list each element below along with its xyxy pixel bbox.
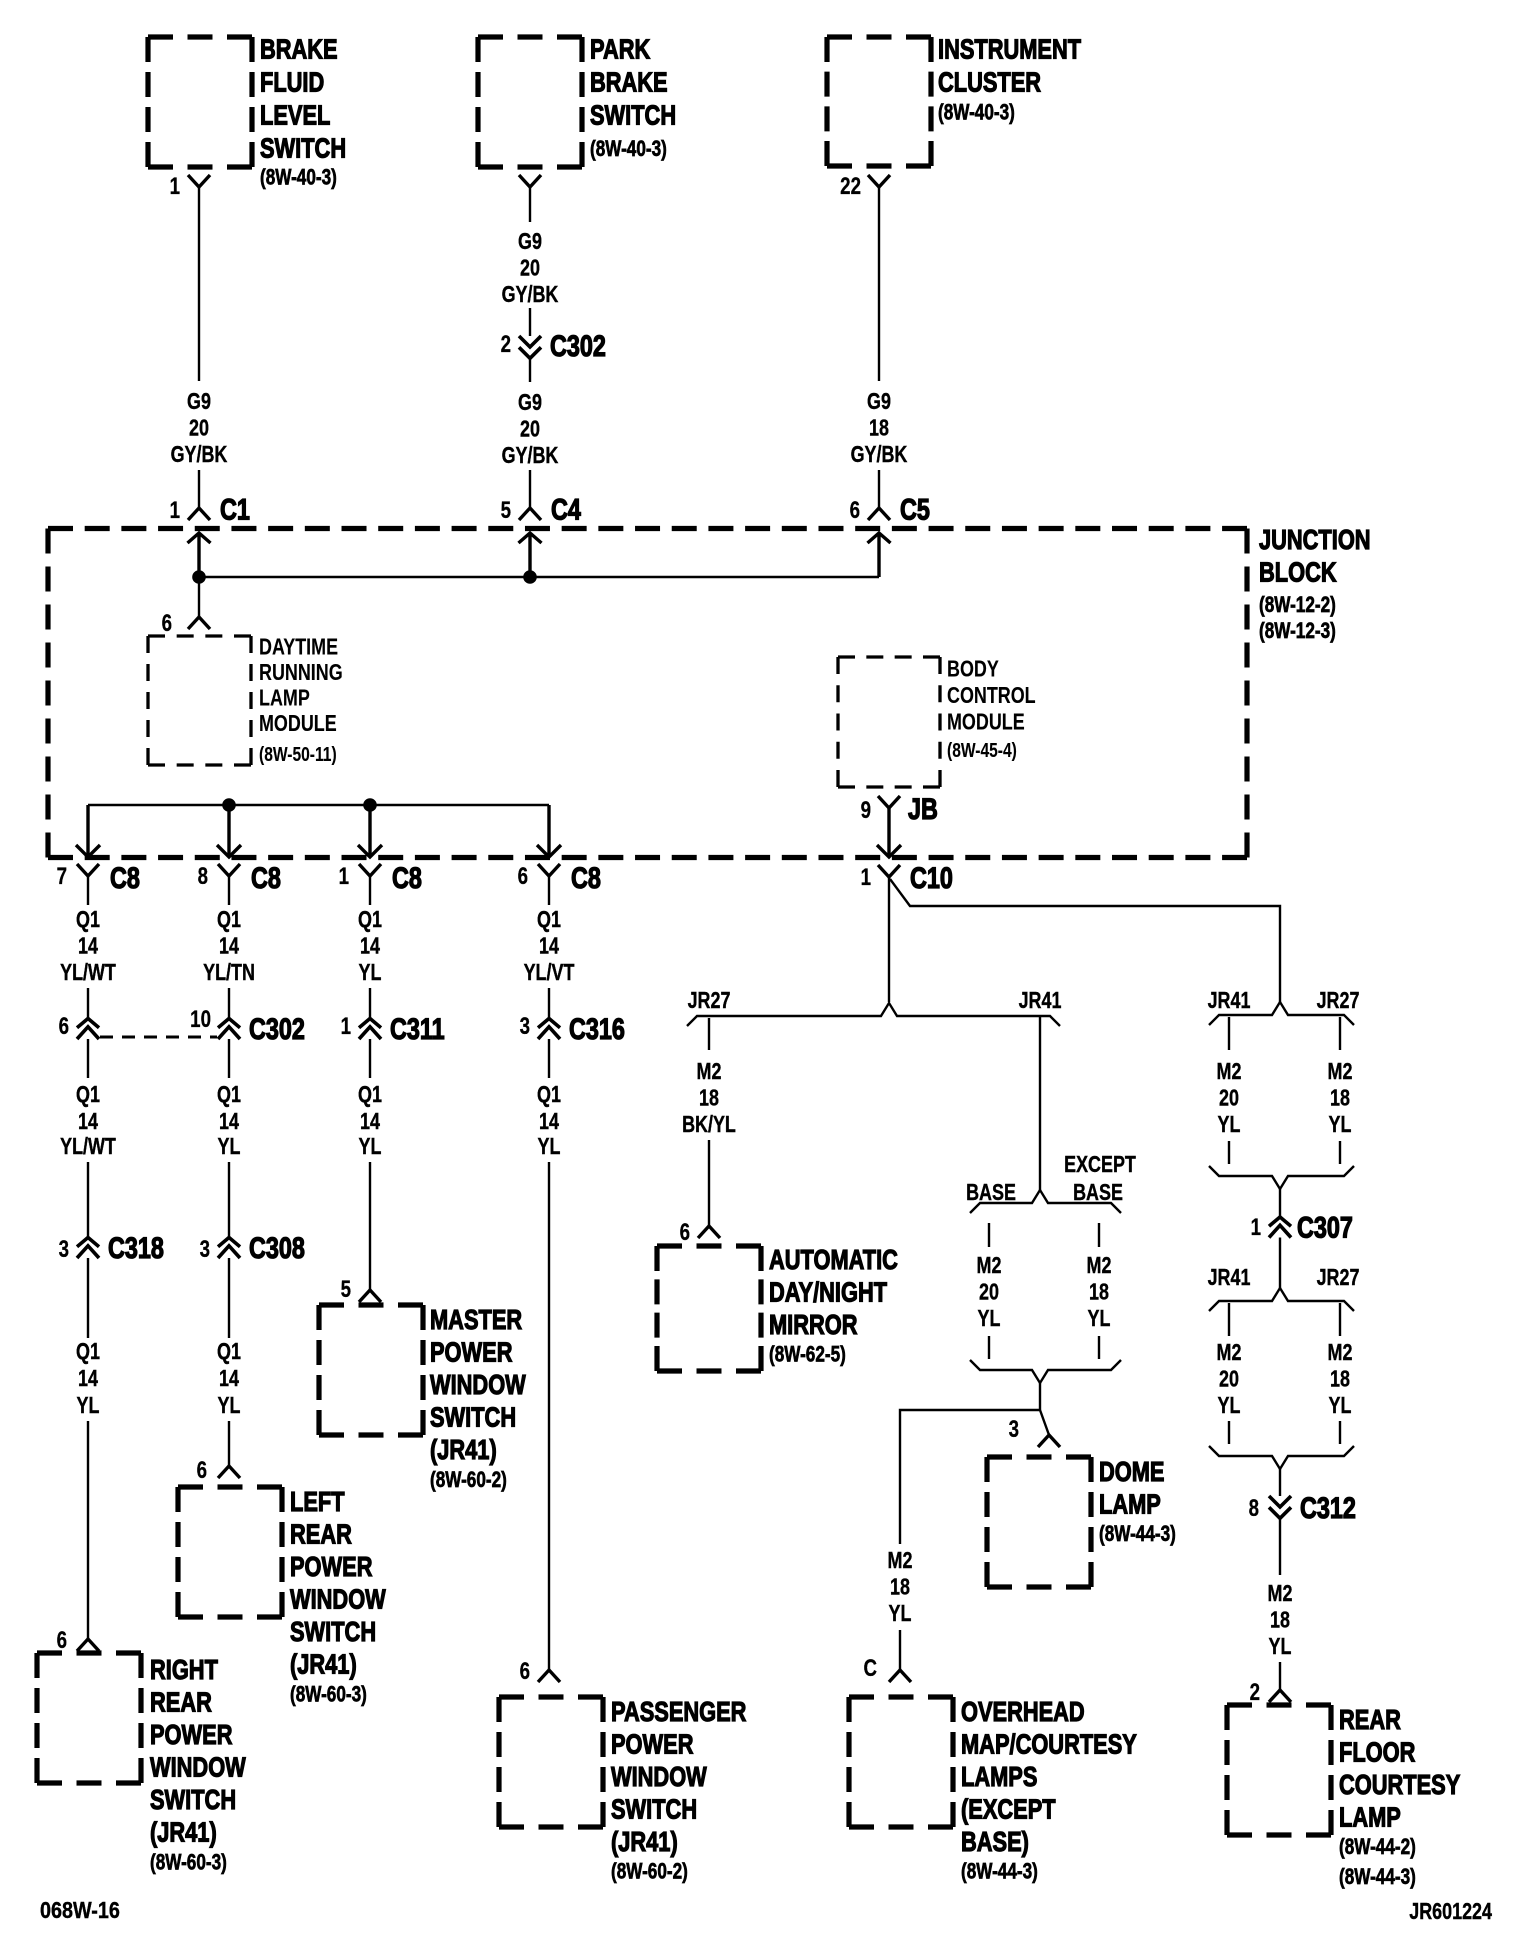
svg-text:18: 18 bbox=[869, 415, 889, 441]
svg-text:(8W-62-5): (8W-62-5) bbox=[769, 1343, 846, 1368]
svg-text:18: 18 bbox=[1270, 1607, 1290, 1633]
connector C8 fork at x=229 bbox=[218, 864, 240, 876]
svg-text:YL/TN: YL/TN bbox=[203, 960, 255, 986]
svg-text:GY/BK: GY/BK bbox=[171, 442, 228, 468]
svg-text:3: 3 bbox=[200, 1236, 210, 1263]
svg-text:C8: C8 bbox=[392, 861, 422, 894]
svg-text:(8W-60-3): (8W-60-3) bbox=[290, 1683, 367, 1708]
wire label M2 18 YL (JR27 lower) bbox=[1328, 1340, 1353, 1419]
wire Q1 14 YL below C318 bbox=[76, 1258, 100, 1419]
component daytime running lamp module bbox=[148, 634, 343, 765]
svg-text:DOME: DOME bbox=[1099, 1456, 1164, 1487]
wire stub except base bbox=[1098, 1223, 1100, 1247]
svg-text:14: 14 bbox=[78, 1366, 98, 1392]
arrow from body control module to C10 bbox=[877, 808, 901, 857]
svg-text:C311: C311 bbox=[390, 1012, 445, 1045]
component automatic day/night mirror bbox=[657, 1244, 898, 1371]
svg-text:YL: YL bbox=[218, 1393, 241, 1419]
svg-text:C308: C308 bbox=[249, 1231, 305, 1264]
connector fork at rear floor courtesy lamp bbox=[1269, 1690, 1291, 1702]
in-line connector C302 (unlabeled half) bbox=[77, 1019, 99, 1040]
svg-text:C10: C10 bbox=[910, 861, 953, 894]
svg-text:Q1: Q1 bbox=[537, 1082, 561, 1108]
in-line connector C308 bbox=[228, 1162, 230, 1238]
svg-text:18: 18 bbox=[699, 1085, 719, 1111]
wire Q1 14 YL/WT below C8 pin 7 bbox=[60, 876, 116, 1018]
svg-text:10: 10 bbox=[190, 1006, 211, 1033]
wire jog to dome lamp bbox=[1040, 1410, 1049, 1435]
svg-text:YL: YL bbox=[359, 1134, 382, 1160]
svg-text:14: 14 bbox=[219, 933, 239, 959]
svg-text:POWER: POWER bbox=[290, 1551, 372, 1582]
svg-text:1: 1 bbox=[170, 173, 180, 200]
wire stub JR41 lower bbox=[1228, 1141, 1230, 1164]
svg-text:6: 6 bbox=[57, 1627, 67, 1654]
wire Q1 14 YL/VT below C8 pin 6 bbox=[524, 876, 575, 1018]
svg-text:22: 22 bbox=[840, 173, 861, 200]
svg-text:WINDOW: WINDOW bbox=[150, 1752, 246, 1783]
harness split JR41 / JR27 right tree lower bbox=[1209, 1288, 1354, 1311]
component park brake switch bbox=[478, 34, 676, 167]
svg-text:3: 3 bbox=[520, 1013, 530, 1040]
svg-text:C5: C5 bbox=[900, 493, 930, 526]
svg-text:FLOOR: FLOOR bbox=[1339, 1737, 1415, 1768]
wire stub except base lower bbox=[1098, 1336, 1100, 1359]
svg-text:20: 20 bbox=[520, 255, 540, 281]
in-line connector C318 bbox=[87, 1162, 89, 1238]
svg-text:WINDOW: WINDOW bbox=[430, 1369, 526, 1400]
wire stub JR27 upper bbox=[1339, 1017, 1341, 1050]
svg-text:Q1: Q1 bbox=[358, 1082, 382, 1108]
wire label M2 20 YL (JR41) bbox=[1217, 1059, 1242, 1138]
component left rear power window switch bbox=[178, 1486, 386, 1707]
svg-text:C1: C1 bbox=[220, 493, 250, 526]
in-line connector C311 bbox=[359, 1019, 381, 1040]
svg-text:MAP/COURTESY: MAP/COURTESY bbox=[961, 1729, 1137, 1760]
svg-text:DAY/NIGHT: DAY/NIGHT bbox=[769, 1277, 888, 1308]
svg-text:LAMP: LAMP bbox=[1339, 1802, 1401, 1833]
component right rear power window switch bbox=[37, 1653, 246, 1875]
arrow into junction block at C4 bbox=[519, 533, 542, 577]
svg-text:COURTESY: COURTESY bbox=[1339, 1769, 1460, 1800]
svg-text:(EXCEPT: (EXCEPT bbox=[961, 1794, 1056, 1825]
component body control module bbox=[838, 656, 1036, 787]
svg-text:9: 9 bbox=[861, 797, 871, 824]
component passenger power window switch bbox=[499, 1696, 746, 1884]
svg-text:BASE: BASE bbox=[966, 1180, 1016, 1206]
svg-text:(8W-60-3): (8W-60-3) bbox=[150, 1851, 227, 1876]
svg-text:WINDOW: WINDOW bbox=[611, 1761, 707, 1792]
svg-text:JR27: JR27 bbox=[1317, 1265, 1360, 1291]
wire from merge to dome lamp branch bbox=[1039, 1383, 1041, 1410]
svg-text:M2: M2 bbox=[1217, 1340, 1242, 1366]
svg-text:M2: M2 bbox=[1328, 1340, 1353, 1366]
wire from C308 to left rear power window switch bbox=[228, 1421, 230, 1466]
svg-text:14: 14 bbox=[219, 1109, 239, 1135]
wire Q1 14 YL/TN below C8 pin 8 bbox=[203, 876, 255, 1018]
svg-text:6: 6 bbox=[518, 863, 528, 890]
wire label M2 20 YL (base) bbox=[977, 1253, 1002, 1332]
svg-text:1: 1 bbox=[341, 1013, 351, 1040]
svg-text:C312: C312 bbox=[1300, 1491, 1356, 1524]
connector fork at left rear power window switch bbox=[218, 1466, 240, 1478]
svg-text:PARK: PARK bbox=[590, 34, 650, 65]
svg-text:LEFT: LEFT bbox=[290, 1486, 345, 1517]
svg-text:3: 3 bbox=[59, 1236, 69, 1263]
svg-text:YL: YL bbox=[77, 1393, 100, 1419]
wire from C318 to right rear power window switch bbox=[87, 1421, 89, 1639]
wire M2 18 BK/YL to automatic day/night mirror bbox=[682, 1018, 736, 1226]
svg-text:LAMP: LAMP bbox=[259, 685, 310, 711]
component overhead map/courtesy lamps bbox=[849, 1696, 1137, 1884]
wire stub base lower bbox=[988, 1336, 990, 1359]
connector C5 bbox=[868, 508, 890, 520]
svg-text:C: C bbox=[863, 1655, 877, 1682]
svg-text:M2: M2 bbox=[697, 1059, 722, 1085]
svg-text:JR41: JR41 bbox=[1208, 988, 1251, 1014]
connector C1 bbox=[188, 508, 210, 520]
svg-text:2: 2 bbox=[501, 331, 511, 358]
svg-text:MIRROR: MIRROR bbox=[769, 1309, 858, 1340]
svg-text:G9: G9 bbox=[187, 389, 211, 415]
svg-text:YL/WT: YL/WT bbox=[60, 960, 116, 986]
svg-text:YL: YL bbox=[538, 1134, 561, 1160]
svg-text:6: 6 bbox=[850, 497, 860, 524]
svg-text:14: 14 bbox=[78, 1109, 98, 1135]
svg-text:Q1: Q1 bbox=[537, 907, 561, 933]
svg-text:YL: YL bbox=[1269, 1634, 1292, 1660]
svg-text:YL: YL bbox=[1329, 1112, 1352, 1138]
svg-text:Q1: Q1 bbox=[217, 907, 241, 933]
svg-text:Q1: Q1 bbox=[217, 1082, 241, 1108]
svg-text:20: 20 bbox=[189, 415, 209, 441]
svg-text:C316: C316 bbox=[569, 1012, 625, 1045]
harness split BASE / EXCEPT BASE bbox=[970, 1190, 1121, 1213]
svg-text:Q1: Q1 bbox=[217, 1339, 241, 1365]
connector fork under park brake switch bbox=[519, 175, 541, 187]
svg-text:(8W-44-3): (8W-44-3) bbox=[1339, 1865, 1416, 1890]
svg-text:(8W-44-3): (8W-44-3) bbox=[1099, 1522, 1176, 1547]
svg-text:C8: C8 bbox=[251, 861, 281, 894]
svg-text:Q1: Q1 bbox=[76, 1339, 100, 1365]
component rear floor courtesy lamp bbox=[1227, 1704, 1460, 1889]
wire branch from C10 to right harness bbox=[890, 879, 1280, 1002]
svg-text:(8W-44-2): (8W-44-2) bbox=[1339, 1835, 1416, 1860]
svg-text:YL: YL bbox=[359, 960, 382, 986]
wire M2 18 YL to overhead map/courtesy lamps bbox=[888, 1548, 913, 1670]
svg-text:YL: YL bbox=[978, 1306, 1001, 1332]
connector C8 fork at x=88 bbox=[77, 864, 99, 876]
svg-text:POWER: POWER bbox=[611, 1729, 693, 1760]
svg-text:6: 6 bbox=[680, 1219, 690, 1246]
svg-text:(JR41): (JR41) bbox=[430, 1434, 497, 1465]
svg-text:CONTROL: CONTROL bbox=[947, 683, 1036, 709]
svg-text:G9: G9 bbox=[518, 229, 542, 255]
harness split JR27 / JR41 left tree bbox=[687, 1003, 1060, 1026]
svg-text:BASE: BASE bbox=[1073, 1180, 1123, 1206]
svg-text:Q1: Q1 bbox=[358, 907, 382, 933]
connector fork at dome lamp bbox=[1038, 1435, 1060, 1447]
svg-text:M2: M2 bbox=[1268, 1581, 1293, 1607]
svg-text:14: 14 bbox=[539, 933, 559, 959]
svg-text:G9: G9 bbox=[518, 390, 542, 416]
svg-text:SWITCH: SWITCH bbox=[611, 1794, 697, 1825]
wire stub base bbox=[988, 1223, 990, 1247]
svg-text:JUNCTION: JUNCTION bbox=[1259, 524, 1371, 555]
svg-text:RUNNING: RUNNING bbox=[259, 660, 343, 686]
svg-text:YL: YL bbox=[1218, 1112, 1241, 1138]
svg-text:JR41: JR41 bbox=[1208, 1265, 1251, 1291]
svg-text:6: 6 bbox=[520, 1658, 530, 1685]
svg-text:3: 3 bbox=[1009, 1416, 1019, 1443]
svg-text:BK/YL: BK/YL bbox=[682, 1112, 736, 1138]
svg-text:Q1: Q1 bbox=[76, 907, 100, 933]
svg-text:OVERHEAD: OVERHEAD bbox=[961, 1696, 1085, 1727]
connector fork at automatic day/night mirror bbox=[698, 1226, 720, 1238]
junction dot C8 bus left bbox=[222, 798, 236, 812]
wire stub JR27 lower bbox=[1339, 1141, 1341, 1164]
junction dot C8 bus right bbox=[363, 798, 377, 812]
junction block bbox=[48, 524, 1371, 857]
svg-text:(8W-12-3): (8W-12-3) bbox=[1259, 619, 1336, 644]
arrow out of junction block at x=229 bbox=[217, 805, 241, 857]
svg-text:20: 20 bbox=[1219, 1085, 1239, 1111]
arrow into junction block at C5 bbox=[868, 533, 891, 577]
svg-text:REAR: REAR bbox=[150, 1687, 212, 1718]
wire into C307 bbox=[1279, 1189, 1281, 1217]
svg-text:EXCEPT: EXCEPT bbox=[1064, 1152, 1136, 1178]
wire from C316 to passenger power window switch bbox=[548, 1162, 550, 1670]
svg-text:YL: YL bbox=[889, 1601, 912, 1627]
connector fork at master power window switch bbox=[359, 1290, 381, 1302]
svg-text:C8: C8 bbox=[571, 861, 601, 894]
svg-text:BRAKE: BRAKE bbox=[260, 34, 338, 65]
svg-text:SWITCH: SWITCH bbox=[430, 1402, 516, 1433]
svg-text:GY/BK: GY/BK bbox=[502, 443, 559, 469]
svg-text:20: 20 bbox=[979, 1279, 999, 1305]
junction dot at C1 bus bbox=[192, 570, 206, 584]
svg-text:14: 14 bbox=[360, 1109, 380, 1135]
svg-text:GY/BK: GY/BK bbox=[851, 442, 908, 468]
svg-text:REAR: REAR bbox=[1339, 1704, 1401, 1735]
svg-text:1: 1 bbox=[170, 497, 180, 524]
svg-text:JR27: JR27 bbox=[688, 988, 731, 1014]
svg-text:6: 6 bbox=[197, 1457, 207, 1484]
svg-text:8: 8 bbox=[198, 863, 208, 890]
component brake fluid level switch bbox=[148, 34, 346, 190]
svg-text:YL: YL bbox=[1218, 1393, 1241, 1419]
svg-text:BODY: BODY bbox=[947, 656, 999, 682]
in-line connector C302 bbox=[519, 336, 541, 358]
svg-text:M2: M2 bbox=[888, 1548, 913, 1574]
wire Q1 14 YL below C8 pin 1 bbox=[358, 876, 382, 1018]
wire from C307 to lower split bbox=[1279, 1238, 1281, 1289]
wire G9 20 GY/BK from C302 to C4 bbox=[502, 359, 559, 509]
svg-text:6: 6 bbox=[162, 610, 172, 637]
connector fork under instrument cluster bbox=[868, 175, 890, 187]
wire into C312 bbox=[1279, 1469, 1281, 1496]
svg-text:5: 5 bbox=[501, 497, 511, 524]
svg-text:JR41: JR41 bbox=[1019, 988, 1062, 1014]
svg-text:JR601224: JR601224 bbox=[1409, 1899, 1492, 1925]
svg-text:MODULE: MODULE bbox=[947, 709, 1025, 735]
wire label M2 20 YL (JR41 lower) bbox=[1217, 1340, 1242, 1419]
wire Q1 14 YL/WT second segment at x=88 bbox=[60, 1039, 116, 1160]
wire G9 20 GY/BK from brake fluid level switch to C1 bbox=[171, 187, 228, 508]
svg-text:1: 1 bbox=[1251, 1214, 1261, 1241]
svg-text:YL: YL bbox=[1088, 1306, 1111, 1332]
svg-text:Q1: Q1 bbox=[76, 1082, 100, 1108]
svg-text:C307: C307 bbox=[1297, 1211, 1353, 1244]
svg-text:LEVEL: LEVEL bbox=[260, 100, 330, 131]
connector C8 fork at x=549 bbox=[538, 864, 560, 876]
svg-text:(8W-45-4): (8W-45-4) bbox=[947, 739, 1017, 761]
in-line connector C307 bbox=[1269, 1217, 1291, 1238]
svg-text:C302: C302 bbox=[249, 1012, 305, 1045]
wire label M2 18 YL (except base) bbox=[1087, 1253, 1112, 1332]
wire Q1 14 YL second segment at x=549 bbox=[537, 1039, 561, 1160]
wire from JR41 split to base/except-base split bbox=[1039, 1016, 1041, 1190]
svg-text:7: 7 bbox=[57, 863, 67, 890]
connector fork at overhead map/courtesy lamps bbox=[889, 1670, 911, 1682]
wire stub JR27 bottom bbox=[1339, 1421, 1341, 1444]
connector fork at right rear power window switch bbox=[77, 1639, 99, 1651]
svg-text:068W-16: 068W-16 bbox=[40, 1898, 120, 1924]
svg-text:(8W-60-2): (8W-60-2) bbox=[611, 1860, 688, 1885]
svg-text:M2: M2 bbox=[1087, 1253, 1112, 1279]
in-line connector C302 bbox=[218, 1019, 240, 1040]
wire G9 20 GY/BK from park brake switch to C302 bbox=[502, 187, 559, 336]
svg-text:6: 6 bbox=[59, 1013, 69, 1040]
connector JB under body control module bbox=[878, 796, 900, 808]
wire Q1 14 YL second segment at x=229 bbox=[217, 1039, 241, 1160]
svg-text:(8W-50-11): (8W-50-11) bbox=[259, 743, 337, 765]
wire stub JR41 bottom bbox=[1228, 1421, 1230, 1444]
svg-text:YL: YL bbox=[1329, 1393, 1352, 1419]
svg-text:14: 14 bbox=[219, 1366, 239, 1392]
svg-text:PASSENGER: PASSENGER bbox=[611, 1696, 746, 1727]
svg-text:18: 18 bbox=[1330, 1366, 1350, 1392]
svg-text:GY/BK: GY/BK bbox=[502, 282, 559, 308]
connector fork at passenger power window switch bbox=[538, 1670, 560, 1682]
svg-text:SWITCH: SWITCH bbox=[290, 1616, 376, 1647]
svg-text:18: 18 bbox=[1089, 1279, 1109, 1305]
in-line connector C316 bbox=[538, 1019, 560, 1040]
svg-text:M2: M2 bbox=[1328, 1059, 1353, 1085]
svg-text:M2: M2 bbox=[977, 1253, 1002, 1279]
svg-text:REAR: REAR bbox=[290, 1519, 352, 1550]
component dome lamp bbox=[987, 1456, 1176, 1587]
svg-text:JR27: JR27 bbox=[1317, 988, 1360, 1014]
svg-text:AUTOMATIC: AUTOMATIC bbox=[769, 1244, 898, 1275]
svg-text:(8W-40-3): (8W-40-3) bbox=[590, 137, 667, 162]
svg-text:18: 18 bbox=[1330, 1085, 1350, 1111]
svg-text:14: 14 bbox=[539, 1109, 559, 1135]
dashed link between C302 connector halves bbox=[100, 1036, 217, 1039]
wire Q1 14 YL below C308 bbox=[217, 1258, 241, 1419]
wire from bus to daytime running lamp module bbox=[198, 577, 200, 617]
svg-text:POWER: POWER bbox=[150, 1719, 232, 1750]
wire stub JR27 lower tree bbox=[1339, 1303, 1341, 1336]
svg-text:CLUSTER: CLUSTER bbox=[938, 67, 1041, 98]
arrow into junction block at C1 bbox=[188, 533, 211, 577]
svg-text:(JR41): (JR41) bbox=[611, 1826, 678, 1857]
svg-text:JB: JB bbox=[908, 792, 938, 825]
svg-text:M2: M2 bbox=[1217, 1059, 1242, 1085]
svg-text:8: 8 bbox=[1249, 1495, 1259, 1522]
connector C10 bbox=[878, 865, 900, 877]
svg-text:C302: C302 bbox=[550, 329, 606, 362]
svg-text:WINDOW: WINDOW bbox=[290, 1584, 386, 1615]
arrow out of junction block at x=88 bbox=[76, 805, 100, 857]
wire Q1 14 YL second segment at x=370 bbox=[358, 1039, 382, 1160]
connector C4 bbox=[519, 508, 541, 520]
arrow out of junction block at x=370 bbox=[358, 805, 382, 857]
svg-text:SWITCH: SWITCH bbox=[260, 133, 346, 164]
internal bus wire joining C1 C4 C5 bbox=[199, 576, 879, 578]
svg-text:(JR41): (JR41) bbox=[150, 1817, 217, 1848]
svg-text:MODULE: MODULE bbox=[259, 711, 337, 737]
svg-text:YL/VT: YL/VT bbox=[524, 960, 575, 986]
component master power window switch bbox=[319, 1304, 526, 1492]
internal bus wire to C8 outputs bbox=[88, 804, 549, 806]
svg-text:(8W-40-3): (8W-40-3) bbox=[260, 166, 337, 191]
wire from C10 down to splice bbox=[888, 877, 890, 1002]
svg-text:1: 1 bbox=[339, 863, 349, 890]
svg-text:LAMPS: LAMPS bbox=[961, 1761, 1037, 1792]
svg-text:(JR41): (JR41) bbox=[290, 1649, 357, 1680]
harness split JR41 / JR27 right tree upper bbox=[1209, 1002, 1354, 1025]
svg-text:20: 20 bbox=[1219, 1366, 1239, 1392]
svg-text:1: 1 bbox=[861, 864, 871, 891]
svg-text:FLUID: FLUID bbox=[260, 67, 324, 98]
wire G9 18 GY/BK from instrument cluster to C5 bbox=[851, 187, 908, 508]
connector fork at daytime running lamp module bbox=[188, 617, 210, 629]
svg-text:RIGHT: RIGHT bbox=[150, 1654, 218, 1685]
svg-text:MASTER: MASTER bbox=[430, 1304, 522, 1335]
svg-text:(8W-44-3): (8W-44-3) bbox=[961, 1860, 1038, 1885]
junction dot at C4 bus bbox=[523, 570, 537, 584]
svg-text:(8W-12-2): (8W-12-2) bbox=[1259, 593, 1336, 618]
wire branch to overhead lamps bbox=[900, 1410, 1040, 1544]
harness merge above C307 bbox=[1209, 1166, 1354, 1189]
connector C8 fork at x=370 bbox=[359, 864, 381, 876]
svg-text:2: 2 bbox=[1250, 1679, 1260, 1706]
svg-text:LAMP: LAMP bbox=[1099, 1489, 1161, 1520]
svg-text:SWITCH: SWITCH bbox=[150, 1784, 236, 1815]
svg-text:C318: C318 bbox=[108, 1231, 164, 1264]
svg-text:SWITCH: SWITCH bbox=[590, 100, 676, 131]
svg-text:DAYTIME: DAYTIME bbox=[259, 634, 338, 660]
svg-text:18: 18 bbox=[890, 1574, 910, 1600]
svg-text:C8: C8 bbox=[110, 861, 140, 894]
svg-text:(8W-40-3): (8W-40-3) bbox=[938, 101, 1015, 126]
wire stub JR41 upper bbox=[1228, 1017, 1230, 1050]
svg-text:BASE): BASE) bbox=[961, 1826, 1029, 1857]
wire from C311 to master power window switch bbox=[369, 1162, 371, 1290]
svg-text:YL: YL bbox=[218, 1134, 241, 1160]
wire stub JR41 lower tree bbox=[1228, 1303, 1230, 1336]
svg-text:(8W-60-2): (8W-60-2) bbox=[430, 1468, 507, 1493]
svg-text:POWER: POWER bbox=[430, 1337, 512, 1368]
svg-text:YL/WT: YL/WT bbox=[60, 1134, 116, 1160]
svg-text:INSTRUMENT: INSTRUMENT bbox=[938, 34, 1082, 65]
in-line connector C312 bbox=[1269, 1496, 1291, 1518]
harness merge below base/except-base bbox=[970, 1360, 1121, 1383]
svg-text:C4: C4 bbox=[551, 493, 581, 526]
svg-text:BLOCK: BLOCK bbox=[1259, 557, 1337, 588]
svg-text:20: 20 bbox=[520, 416, 540, 442]
